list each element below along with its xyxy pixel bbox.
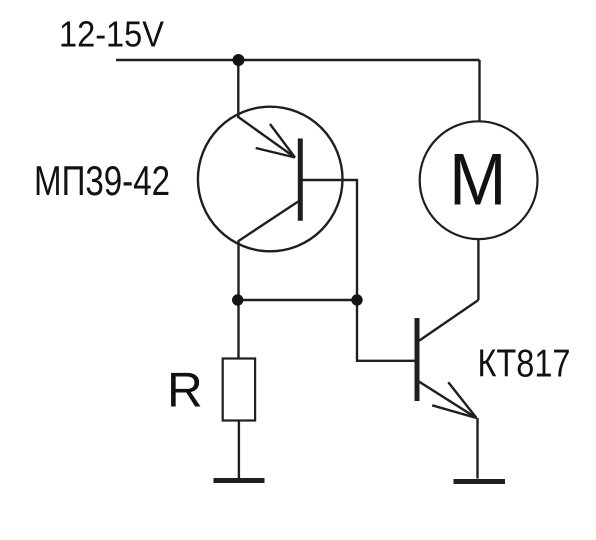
transistor Q1 МП39-42 circle (198, 107, 343, 252)
Q1 emitter arrow barb lower (256, 148, 295, 158)
wire resistor to ground (238, 421, 240, 479)
Q1 emitter line (238, 117, 295, 158)
svg-text:M: M (449, 140, 507, 221)
wire rail to motor (478, 60, 480, 121)
Q2 collector line (419, 300, 478, 341)
Q2 emitter arrow barb upper (448, 382, 476, 418)
wire motor to Q2 collector (477, 240, 479, 301)
node junction dot A left (232, 294, 243, 305)
node junction dot top rail (233, 54, 245, 66)
svg-text:12-15V: 12-15V (59, 14, 164, 55)
ground right (454, 479, 506, 484)
node junction dot A right (351, 294, 362, 305)
wire top supply rail (116, 59, 480, 61)
Q2 emitter arrow barb lower (432, 405, 476, 418)
svg-text:КТ817: КТ817 (478, 343, 571, 386)
resistor R (223, 359, 255, 421)
wire Q2 emitter to ground (476, 418, 478, 479)
svg-text:R: R (167, 363, 203, 418)
Q2 emitter line (419, 382, 476, 418)
svg-text:МП39-42: МП39-42 (34, 157, 170, 204)
Q1 base bar (298, 139, 303, 221)
wire top rail to Q1 emitter (237, 60, 239, 118)
Q1 emitter arrow barb upper (270, 124, 295, 158)
transistor Q2 КТ817 base bar (415, 318, 420, 401)
motor M circle (420, 121, 538, 239)
Q1 collector line (239, 202, 299, 301)
wire Q2 base lead (357, 300, 415, 361)
ground left (214, 478, 265, 483)
wire Q1 base lead (303, 180, 358, 300)
wire bottom node A (239, 299, 358, 301)
wire node A to resistor (237, 300, 239, 359)
